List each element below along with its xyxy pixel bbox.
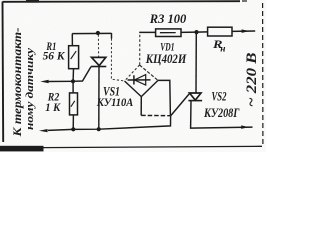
svg-text:56 К: 56 К xyxy=(43,49,66,63)
svg-text:н: н xyxy=(220,43,225,53)
svg-text:КЦ402И: КЦ402И xyxy=(145,52,187,66)
svg-text:К термоконтакт-: К термоконтакт- xyxy=(12,27,24,137)
svg-text:КУ110А: КУ110А xyxy=(96,95,134,109)
svg-text:VS2: VS2 xyxy=(212,89,227,103)
svg-text:1 К: 1 К xyxy=(45,100,61,114)
svg-text:ному датчику: ному датчику xyxy=(25,47,36,130)
svg-text:R3 100: R3 100 xyxy=(149,12,187,26)
svg-text:~ 220 В: ~ 220 В xyxy=(244,53,260,108)
svg-text:КУ208Г: КУ208Г xyxy=(203,106,240,120)
